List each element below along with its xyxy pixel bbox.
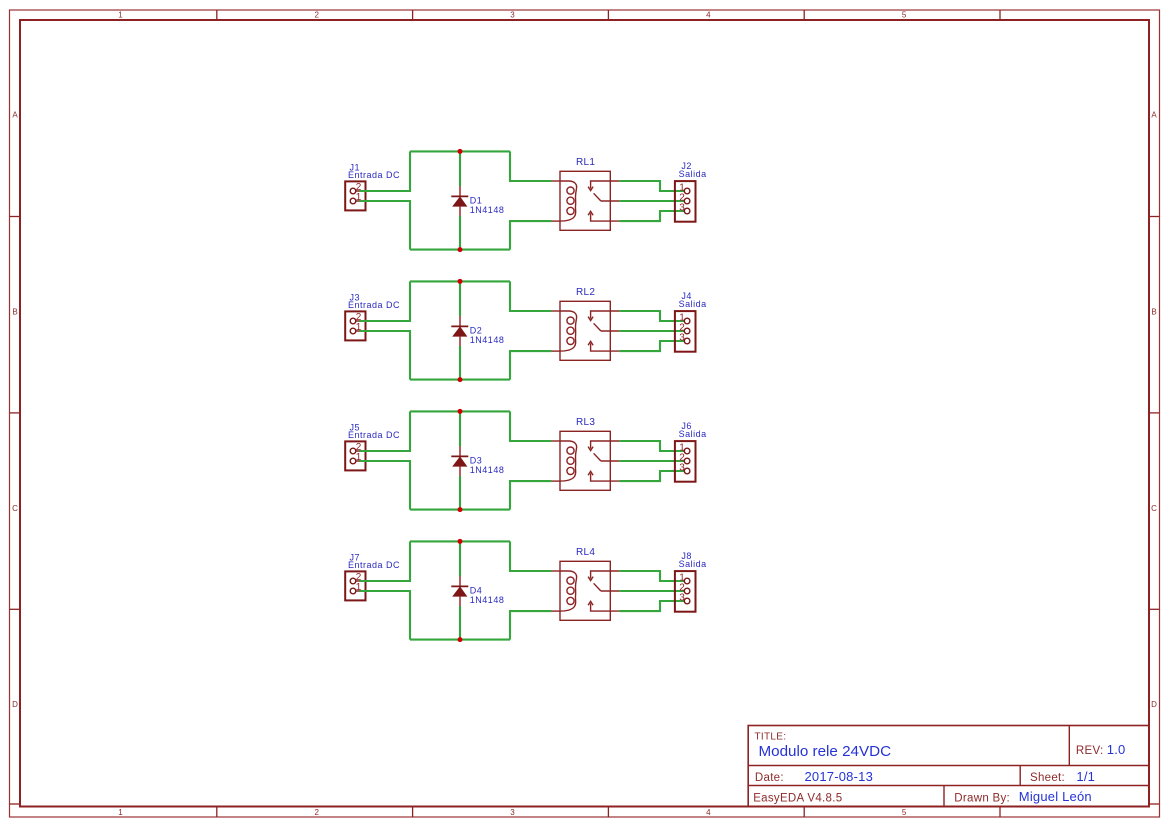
wire [360, 151, 410, 191]
pin numbers J4 [679, 313, 685, 344]
svg-text:C: C [1151, 504, 1157, 513]
wire [459, 346, 461, 380]
column numbers bottom [118, 808, 907, 817]
wire [510, 351, 552, 380]
title block divider Drawn By [943, 786, 945, 807]
connector J1 [345, 181, 365, 210]
svg-text:3: 3 [679, 203, 685, 214]
title block divider REV [1068, 726, 1070, 766]
svg-text:4: 4 [706, 11, 711, 20]
svg-text:5: 5 [902, 808, 907, 817]
svg-text:RL2: RL2 [576, 287, 595, 298]
svg-text:1/1: 1/1 [1076, 769, 1095, 784]
svg-text:Salida: Salida [679, 299, 707, 309]
label D4 1N4148 [470, 585, 505, 605]
row letters left [12, 110, 18, 709]
junction [458, 279, 463, 284]
wire [510, 221, 552, 250]
svg-text:C: C [12, 504, 18, 513]
wire [410, 410, 510, 412]
svg-text:2017-08-13: 2017-08-13 [805, 769, 874, 784]
connector J5 [345, 441, 365, 470]
svg-text:1: 1 [118, 808, 123, 817]
svg-text:Modulo rele 24VDC: Modulo rele 24VDC [759, 743, 892, 760]
wire [459, 281, 461, 316]
wire [619, 590, 684, 592]
svg-text:D: D [12, 700, 18, 709]
svg-text:2: 2 [314, 11, 319, 20]
wire [410, 249, 510, 251]
column tick marks bottom [217, 807, 1000, 817]
svg-text:1N4148: 1N4148 [470, 335, 505, 345]
svg-text:Entrada DC: Entrada DC [348, 300, 400, 310]
pin numbers J6 [679, 443, 685, 474]
svg-text:Entrada DC: Entrada DC [348, 170, 400, 180]
svg-text:D1: D1 [470, 195, 483, 205]
connector J3 [345, 311, 365, 340]
svg-text:Salida: Salida [679, 429, 707, 439]
svg-text:A: A [12, 110, 18, 119]
junction [458, 637, 463, 642]
svg-text:D3: D3 [470, 455, 483, 465]
wire [360, 281, 410, 321]
wire [410, 379, 510, 381]
svg-text:1: 1 [118, 11, 123, 20]
wire [360, 591, 410, 640]
svg-text:Entrada DC: Entrada DC [348, 560, 400, 570]
svg-text:3: 3 [510, 808, 515, 817]
wire [619, 181, 684, 191]
svg-text:D2: D2 [470, 325, 483, 335]
svg-text:3: 3 [679, 593, 685, 604]
wire [459, 411, 461, 446]
wire [619, 211, 684, 221]
connector J8 [675, 571, 696, 612]
pin numbers J2 [679, 183, 685, 214]
wire [459, 151, 461, 186]
svg-text:1N4148: 1N4148 [470, 465, 505, 475]
wire [619, 471, 684, 481]
svg-text:Miguel León: Miguel León [1019, 789, 1092, 804]
svg-text:3: 3 [679, 463, 685, 474]
wire [619, 571, 684, 581]
relay RL4 [552, 561, 620, 620]
label J5 Entrada DC [348, 423, 400, 441]
svg-text:RL4: RL4 [576, 547, 595, 558]
wire [360, 541, 410, 581]
label J1 Entrada DC [348, 163, 400, 181]
label J3 Entrada DC [348, 293, 400, 311]
wire [619, 200, 684, 202]
wire [619, 341, 684, 351]
junction [458, 409, 463, 414]
connector J7 [345, 571, 365, 600]
wire [360, 201, 410, 250]
label J8 Salida [679, 551, 707, 569]
svg-text:1N4148: 1N4148 [470, 205, 505, 215]
junction [458, 539, 463, 544]
wire [619, 311, 684, 321]
svg-text:Salida: Salida [679, 559, 707, 569]
junction [458, 507, 463, 512]
wire [459, 606, 461, 640]
svg-text:Sheet:: Sheet: [1030, 772, 1065, 784]
wire [619, 441, 684, 451]
svg-text:B: B [1151, 308, 1156, 317]
wire [410, 509, 510, 511]
wire [360, 411, 410, 451]
svg-text:EasyEDA V4.8.5: EasyEDA V4.8.5 [753, 792, 842, 804]
label J6 Salida [679, 421, 707, 439]
svg-text:RL1: RL1 [576, 157, 595, 168]
wire [459, 476, 461, 510]
wire [510, 541, 552, 571]
column numbers top [118, 11, 907, 20]
row letters right [1151, 110, 1157, 709]
label D2 1N4148 [470, 325, 505, 345]
wire [510, 151, 552, 181]
relay RL2 [552, 301, 620, 360]
wire [510, 481, 552, 510]
label J7 Entrada DC [348, 553, 400, 571]
svg-text:TITLE:: TITLE: [755, 732, 787, 743]
row tick marks right [1149, 217, 1159, 805]
svg-text:B: B [12, 308, 17, 317]
wire [410, 150, 510, 152]
pin numbers J3 [356, 312, 362, 333]
wire [459, 541, 461, 576]
row tick marks left [10, 217, 20, 805]
wire [510, 411, 552, 441]
wire [410, 540, 510, 542]
wire [410, 639, 510, 641]
svg-text:4: 4 [706, 808, 711, 817]
svg-text:RL3: RL3 [576, 417, 595, 428]
label D1 1N4148 [470, 195, 505, 215]
junction [458, 377, 463, 382]
relay RL3 [552, 431, 620, 490]
svg-text:REV:: REV: [1076, 745, 1104, 757]
relay RL1 [552, 171, 620, 230]
svg-text:D: D [1151, 700, 1157, 709]
svg-text:Date:: Date: [755, 772, 784, 784]
label J2 Salida [679, 161, 707, 179]
pin numbers J1 [356, 182, 362, 203]
svg-text:D4: D4 [470, 585, 483, 595]
label J4 Salida [679, 291, 707, 309]
pin numbers J5 [356, 442, 362, 463]
wire [410, 280, 510, 282]
svg-text:Salida: Salida [679, 169, 707, 179]
svg-text:3: 3 [510, 11, 515, 20]
label D3 1N4148 [470, 455, 505, 475]
wire [360, 461, 410, 510]
connector J4 [675, 311, 696, 352]
column tick marks top [217, 10, 1000, 20]
pin numbers J8 [679, 573, 685, 604]
diode D3 [451, 446, 468, 476]
title block border [748, 726, 1149, 807]
junction [458, 247, 463, 252]
title block row divider (bottom row top) [748, 785, 1149, 787]
pin numbers J7 [356, 572, 362, 593]
diode D4 [451, 576, 468, 606]
junction [458, 149, 463, 154]
connector J2 [675, 181, 696, 222]
connector J6 [675, 441, 696, 482]
wire [459, 216, 461, 250]
svg-text:3: 3 [679, 333, 685, 344]
wire [360, 331, 410, 380]
diode D1 [451, 186, 468, 216]
svg-text:5: 5 [902, 11, 907, 20]
svg-text:1N4148: 1N4148 [470, 595, 505, 605]
wire [510, 281, 552, 311]
title block row divider (date row top) [748, 765, 1149, 767]
svg-text:1.0: 1.0 [1107, 742, 1126, 757]
diode D2 [451, 316, 468, 346]
wire [619, 330, 684, 332]
svg-text:2: 2 [314, 808, 319, 817]
title block divider Sheet [1019, 766, 1021, 786]
wire [510, 611, 552, 640]
wire [619, 601, 684, 611]
svg-text:Drawn By:: Drawn By: [954, 792, 1010, 804]
svg-text:A: A [1151, 110, 1157, 119]
wire [619, 460, 684, 462]
svg-text:Entrada DC: Entrada DC [348, 430, 400, 440]
